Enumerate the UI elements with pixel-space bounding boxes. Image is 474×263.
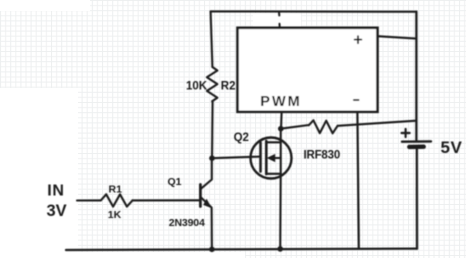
node drain junction dot — [278, 126, 284, 132]
wire bottom bus — [66, 249, 417, 250]
svg-text:IRF830: IRF830 — [304, 149, 341, 161]
wire Q1 emitter — [201, 198, 211, 207]
wire gate node to Q2 — [212, 157, 261, 159]
svg-text:1K: 1K — [108, 209, 122, 221]
wire Q1 emitter to bottom bus — [211, 208, 213, 249]
white patch right edge — [466, 0, 474, 258]
transistor Q1 emitter arrowhead — [203, 199, 212, 208]
mosfet Q2 body stub — [280, 142, 282, 174]
wire PWM plus terminal to right bus — [378, 36, 417, 38]
wire resistor to battery plus node — [338, 121, 417, 126]
white patch below bottom bus — [60, 252, 245, 258]
wire Q1 collector — [201, 159, 212, 189]
wire PWM minus drop — [357, 112, 358, 249]
node source-bus junction dot — [277, 246, 283, 252]
resistor R1 — [101, 194, 133, 206]
svg-text:10K: 10K — [186, 81, 208, 93]
svg-text:Q1: Q1 — [168, 176, 182, 188]
wire R2 bottom lead — [211, 101, 214, 157]
svg-text:R1: R1 — [109, 183, 123, 195]
svg-text:R2: R2 — [221, 81, 236, 93]
wire right bus lower — [416, 149, 419, 249]
wire IN to R1 — [77, 199, 101, 201]
mosfet Q2 drain stub — [266, 129, 280, 143]
mosfet Q2 arrowhead — [267, 154, 275, 162]
wire PWM box bottom to drain node — [280, 113, 283, 129]
white patch left side — [0, 88, 78, 258]
PWM plus sign — [355, 36, 362, 43]
battery plus sign — [402, 129, 410, 137]
white patch under top bus above PWM box — [253, 13, 301, 27]
mosfet Q2 body arrow line — [273, 157, 281, 159]
svg-text:PWM: PWM — [260, 94, 301, 110]
node emitter-bus junction dot — [209, 247, 215, 253]
wire right bus upper — [415, 12, 417, 141]
PWM minus sign — [354, 99, 359, 101]
erased stub ticks above PWM box — [278, 12, 281, 27]
mosfet Q2 gate bar — [259, 143, 262, 172]
white patch top-left — [0, 0, 90, 11]
resistor (drain, unnamed) — [309, 120, 338, 133]
mosfet Q2 channel bar — [265, 141, 268, 174]
wire top bus — [211, 10, 417, 12]
wire drain node to resistor — [281, 125, 309, 129]
PWM module box — [238, 28, 378, 112]
battery BT1 short plate — [409, 144, 423, 149]
mosfet Q2 source stub — [266, 173, 280, 175]
wire Q2 source to bottom bus — [279, 174, 282, 249]
resistor R2 — [207, 67, 218, 101]
svg-text:5V: 5V — [441, 138, 463, 157]
wire R1 to Q1 base — [133, 199, 201, 201]
svg-text:Q2: Q2 — [234, 132, 249, 144]
mosfet Q2 body circle — [251, 138, 292, 179]
transistor Q1 base bar — [199, 185, 202, 207]
svg-text:3V: 3V — [47, 202, 67, 220]
svg-text:IN: IN — [47, 183, 65, 200]
battery BT1 long plate — [402, 140, 431, 143]
node gate junction dot — [209, 155, 215, 161]
svg-text:2N3904: 2N3904 — [169, 217, 205, 229]
wire R2 top lead — [211, 11, 213, 67]
